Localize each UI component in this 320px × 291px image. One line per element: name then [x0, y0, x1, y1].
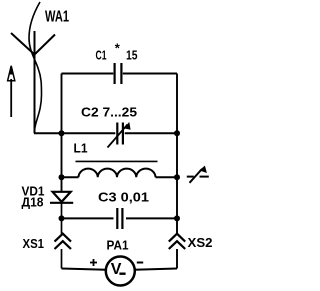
node B: right rail C2 row	[174, 130, 180, 136]
svg-text:15: 15	[126, 48, 138, 63]
wire bottom left	[62, 269, 107, 270]
wire C3 row left	[62, 217, 114, 219]
svg-text:L1: L1	[74, 141, 88, 156]
svg-text:C3 0,01: C3 0,01	[98, 189, 149, 204]
wire top line right	[123, 73, 177, 75]
node D: right rail L1 row	[174, 174, 180, 180]
voltmeter PA1	[106, 257, 135, 286]
polarity +	[90, 259, 97, 266]
svg-text:C2 7...25: C2 7...25	[81, 105, 137, 120]
node E: left rail C3 row	[59, 215, 65, 221]
wire antenna to node	[34, 132, 62, 134]
wire C2 row left	[62, 132, 116, 134]
inductor L1	[76, 161, 158, 177]
left rail XS1 to bottom	[61, 249, 63, 269]
svg-text:PA1: PA1	[107, 237, 129, 252]
label VD1 / Д18	[22, 184, 45, 210]
wire C2 row right	[125, 132, 177, 134]
left rail diode to XS1	[61, 203, 63, 234]
wire L1 row left	[62, 176, 79, 178]
label C1 * 15	[96, 41, 138, 63]
connector XS1	[55, 234, 72, 249]
node A: left rail / antenna junction	[59, 130, 65, 136]
wire C3 row right	[126, 217, 177, 219]
plug (external antenna jack) symbol	[187, 166, 209, 183]
antenna WA1	[11, 2, 55, 133]
connector XS2	[169, 234, 185, 249]
wire L1 row right	[156, 176, 178, 178]
svg-text:V: V	[111, 261, 122, 278]
capacitor C2 (variable)	[108, 122, 131, 148]
diode VD1	[50, 192, 73, 203]
svg-text:C1: C1	[96, 48, 107, 63]
node C: left rail L1 row	[59, 174, 65, 180]
svg-text:WA1: WA1	[45, 9, 69, 26]
direction arrow	[8, 66, 15, 117]
left rail upper	[61, 74, 63, 192]
wire bottom right	[134, 269, 177, 270]
node F: right rail C3 row	[174, 215, 180, 221]
svg-text:*: *	[115, 41, 121, 56]
capacitor C1	[115, 63, 122, 84]
svg-text:XS1: XS1	[23, 236, 45, 251]
svg-text:Д18: Д18	[22, 194, 44, 209]
right rail	[176, 74, 178, 234]
polarity -	[137, 262, 143, 264]
svg-text:XS2: XS2	[188, 235, 213, 250]
wire top line left	[62, 73, 114, 75]
capacitor C3	[117, 208, 122, 229]
